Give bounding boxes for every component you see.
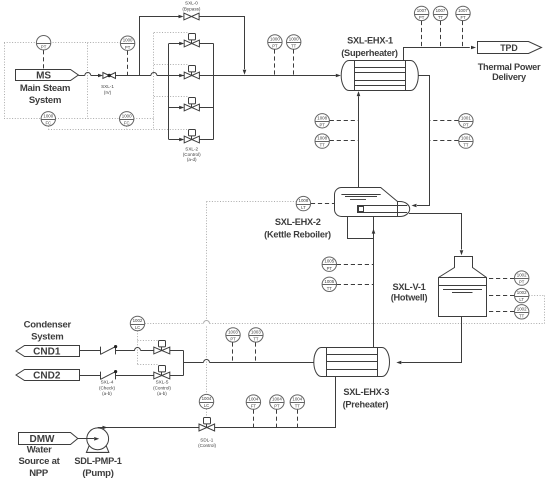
pump SDL-PMP-1 centrifugal pump [87, 428, 109, 450]
svg-text:(Preheater): (Preheater) [343, 399, 389, 409]
svg-text:1007: 1007 [436, 8, 446, 13]
svg-text:SXL-4: SXL-4 [101, 380, 114, 385]
instrument PT-1001 on superheater outlet downcomer [459, 114, 473, 128]
node MS flag Main Steam System source [16, 70, 79, 81]
wire tube-side outlet down to kettle [417, 76, 430, 206]
instrument TT-1004 on feedwater line [290, 395, 304, 409]
node CND2 flag [16, 370, 80, 381]
instrument TT-1001 on superheater outlet downcomer [459, 134, 473, 148]
svg-text:PT: PT [327, 266, 333, 271]
svg-text:Delivery: Delivery [492, 72, 527, 82]
svg-text:(Control): (Control) [153, 385, 171, 390]
svg-text:1002: 1002 [517, 273, 527, 278]
wire bypass riser and top run [140, 17, 179, 76]
valve SXL-2a control valve with actuator [191, 40, 193, 44]
valve SXL-2b control valve with actuator [191, 72, 193, 76]
instrument PT-1005 on kettle feed line [322, 257, 336, 271]
valve SXL-5a control valve [161, 347, 163, 351]
instrument PT-1000 downstream of manifold [268, 35, 282, 49]
svg-text:LC: LC [135, 325, 140, 330]
signal net: LT-1002 to LC-1002 dotted [145, 323, 204, 325]
svg-text:SXL-EHX-1: SXL-EHX-1 [347, 36, 393, 46]
svg-text:SXL-EHX-2: SXL-EHX-2 [275, 217, 321, 227]
wire manifold left header [168, 44, 170, 140]
wire CND1 line with check valve SXL-4a [79, 350, 100, 352]
svg-text:System: System [29, 95, 61, 106]
svg-text:System: System [31, 331, 63, 342]
wire manifold right header [213, 44, 215, 140]
svg-text:1000: 1000 [43, 113, 53, 118]
svg-text:SXL-2: SXL-2 [185, 147, 198, 152]
kettle tube sheet [397, 202, 399, 217]
svg-text:SXL-EHX-3: SXL-EHX-3 [343, 387, 389, 397]
svg-text:(a-b): (a-b) [102, 391, 112, 396]
svg-text:SDL-1: SDL-1 [200, 437, 213, 442]
svg-text:TT: TT [320, 143, 326, 148]
wire hotwell drain to preheater [402, 317, 462, 363]
vessel SXL-EHX-2 Kettle Reboiler shell [335, 188, 410, 217]
svg-text:SXL-5: SXL-5 [156, 380, 169, 385]
valve SXL-1 isolation valve [103, 73, 116, 79]
svg-text:1003: 1003 [228, 329, 238, 334]
svg-text:(Hotwell): (Hotwell) [391, 292, 428, 302]
svg-text:TT: TT [438, 15, 444, 20]
svg-text:1000: 1000 [123, 38, 133, 43]
wire manifold branch row a [169, 43, 180, 45]
svg-text:PT: PT [125, 45, 131, 50]
svg-text:1008: 1008 [317, 115, 327, 120]
svg-text:TT: TT [463, 143, 469, 148]
svg-text:(a-b): (a-b) [157, 391, 167, 396]
svg-text:Source at: Source at [18, 456, 60, 467]
wire manifold branch row c [169, 107, 180, 109]
wire main steam line from MS to SXL-1 [78, 75, 84, 77]
wire manifold branch row d [169, 139, 180, 141]
svg-text:(Pump): (Pump) [82, 468, 113, 479]
svg-text:SXL-V-1: SXL-V-1 [393, 282, 426, 292]
instrument FC-1000 B [120, 112, 134, 126]
svg-text:(Control): (Control) [198, 443, 216, 448]
svg-text:CND2: CND2 [33, 371, 61, 382]
svg-text:1004: 1004 [202, 396, 212, 401]
svg-text:PT: PT [419, 15, 425, 20]
svg-text:MS: MS [36, 71, 51, 82]
node DMW flag demin water source [19, 433, 78, 445]
svg-text:Condenser: Condenser [24, 320, 72, 331]
instrument TT-1000 downstream of manifold [287, 35, 301, 49]
instrument FC-1000 A [41, 112, 55, 126]
svg-text:PT: PT [320, 122, 326, 127]
svg-text:FT: FT [460, 15, 466, 20]
node TPD flag Thermal Power Delivery [478, 42, 542, 54]
svg-text:PT: PT [274, 404, 280, 409]
wire superheated steam outlet to TPD [404, 48, 470, 61]
signal net: LT-1008 to LC-1004 dotted [207, 201, 297, 203]
wire feedwater line to preheater shell [215, 377, 336, 428]
svg-text:CND1: CND1 [33, 347, 61, 358]
svg-text:1005: 1005 [324, 259, 334, 264]
heat-exchanger SXL-EHX-3 Preheater shell [314, 348, 390, 377]
svg-text:Water: Water [27, 445, 52, 456]
svg-text:SDL-PMP-1: SDL-PMP-1 [74, 456, 121, 466]
wire preheater feed riser into kettle [373, 217, 375, 348]
wire pump discharge line [98, 427, 199, 429]
svg-text:(Bypass): (Bypass) [182, 7, 201, 12]
valve SXL-0 bypass valve [184, 13, 199, 20]
svg-text:1002: 1002 [517, 306, 527, 311]
svg-text:TT: TT [295, 404, 301, 409]
svg-text:1000: 1000 [270, 37, 280, 42]
svg-text:SXL-1: SXL-1 [101, 84, 114, 89]
instrument PT-1003 on condensate return [226, 328, 240, 342]
wire condensate merge header [183, 351, 185, 376]
wire main steam line from SXL-1 to manifold [116, 75, 151, 77]
valve SXL-2d control valve with actuator [191, 136, 193, 140]
instrument PT on MS flag [36, 36, 50, 50]
instrument LT-1008 on kettle [296, 196, 310, 210]
instrument PT-1008 on kettle vapor riser [315, 114, 329, 128]
signal net: FC-1000 outputs dotted to SXL-2 actuators [153, 33, 155, 129]
svg-text:TPD: TPD [500, 43, 518, 53]
vessel SXL-V-1 Hotwell [439, 257, 487, 317]
instrument LC-1002 condensate level controller [130, 316, 144, 330]
svg-text:Thermal Power: Thermal Power [478, 62, 541, 72]
svg-text:1004: 1004 [272, 397, 282, 402]
svg-text:TT: TT [519, 313, 525, 318]
svg-text:(Control): (Control) [183, 152, 201, 157]
instrument LC-1004 feedwater level controller [199, 394, 213, 408]
svg-text:1002: 1002 [517, 290, 527, 295]
svg-text:FC: FC [124, 120, 130, 125]
svg-text:1003: 1003 [251, 329, 261, 334]
wire manifold branch row b [179, 74, 184, 78]
svg-text:1004: 1004 [292, 397, 302, 402]
instrument TT-1008 on kettle vapor riser [315, 134, 329, 148]
instrument FT-1007 on TPD line [456, 6, 470, 20]
svg-text:FC: FC [46, 120, 52, 125]
valve SXL-5b control valve [161, 372, 163, 376]
svg-text:PT: PT [272, 44, 278, 49]
instrument TT-1005 on kettle feed line [322, 277, 336, 291]
svg-text:1002: 1002 [133, 318, 143, 323]
wire main line through manifold to superheater [199, 75, 335, 77]
svg-text:PT: PT [519, 280, 525, 285]
valve SDL-1 feedwater control valve [206, 424, 208, 428]
instrument PT-1000 on main steam line [120, 36, 134, 50]
wire merged condensate line to preheater left cap [184, 362, 204, 364]
wire kettle recirculation loop [348, 217, 374, 239]
svg-text:1000: 1000 [122, 113, 132, 118]
svg-text:(Check): (Check) [99, 385, 116, 390]
instrument TT-1007 on TPD line [433, 6, 447, 20]
signal net: PT-1000 loop dotted lines top left [4, 42, 87, 44]
valve SXL-2c control valve with actuator [191, 104, 193, 108]
signal net: LC-1002 to SXL-5 actuators dotted [137, 331, 139, 365]
instrument TT-1002 on hotwell [515, 305, 529, 319]
svg-text:1000: 1000 [289, 37, 299, 42]
svg-text:LT: LT [519, 297, 524, 302]
wire kettle condensate outlet to hotwell [409, 214, 462, 250]
instrument TT-1003 on condensate return [249, 328, 263, 342]
svg-text:1007: 1007 [458, 8, 468, 13]
instrument FT-1004 on feedwater line [246, 395, 260, 409]
svg-text:1004: 1004 [249, 397, 259, 402]
svg-text:PT: PT [41, 44, 47, 49]
kettle tube bundle [358, 206, 398, 213]
svg-text:TT: TT [291, 44, 297, 49]
svg-text:1001: 1001 [461, 115, 471, 120]
svg-text:Main Steam: Main Steam [20, 83, 70, 94]
svg-text:(a-d): (a-d) [187, 157, 197, 162]
wire pump suction from DMW [78, 438, 94, 440]
svg-text:TT: TT [327, 286, 333, 291]
hotwell liquid level lines [439, 285, 487, 287]
svg-text:PT: PT [463, 122, 469, 127]
instrument PT-1004 on feedwater line [270, 395, 284, 409]
svg-text:LC: LC [204, 403, 209, 408]
instrument PT-1007 on TPD line [414, 6, 428, 20]
wire bypass return to main line [199, 17, 244, 70]
kettle liquid level lines [341, 194, 380, 196]
svg-text:LT: LT [301, 205, 306, 210]
svg-text:1001: 1001 [461, 136, 471, 141]
svg-text:TT: TT [253, 337, 259, 342]
wire CND2 line with check valve SXL-4b [79, 375, 100, 377]
instrument PT-1002 on hotwell [515, 271, 529, 285]
svg-text:PT: PT [230, 337, 236, 342]
svg-text:NPP: NPP [29, 468, 49, 479]
instrument LT-1002 on hotwell [515, 288, 529, 302]
svg-text:DMW: DMW [30, 434, 56, 445]
svg-text:1008: 1008 [317, 136, 327, 141]
heat-exchanger SXL-EHX-1 Superheater shell [341, 61, 418, 91]
wire kettle vapor riser into superheater shell [358, 96, 360, 187]
svg-text:(IV): (IV) [104, 90, 112, 95]
svg-text:FT: FT [251, 404, 257, 409]
svg-text:1007: 1007 [417, 8, 427, 13]
node CND1 flag [16, 346, 80, 357]
svg-text:1008: 1008 [299, 198, 309, 203]
svg-text:(Superheater): (Superheater) [341, 48, 398, 58]
svg-text:(Kettle Reboiler): (Kettle Reboiler) [264, 229, 331, 239]
svg-text:SXL-0: SXL-0 [185, 1, 198, 6]
svg-text:1005: 1005 [324, 279, 334, 284]
